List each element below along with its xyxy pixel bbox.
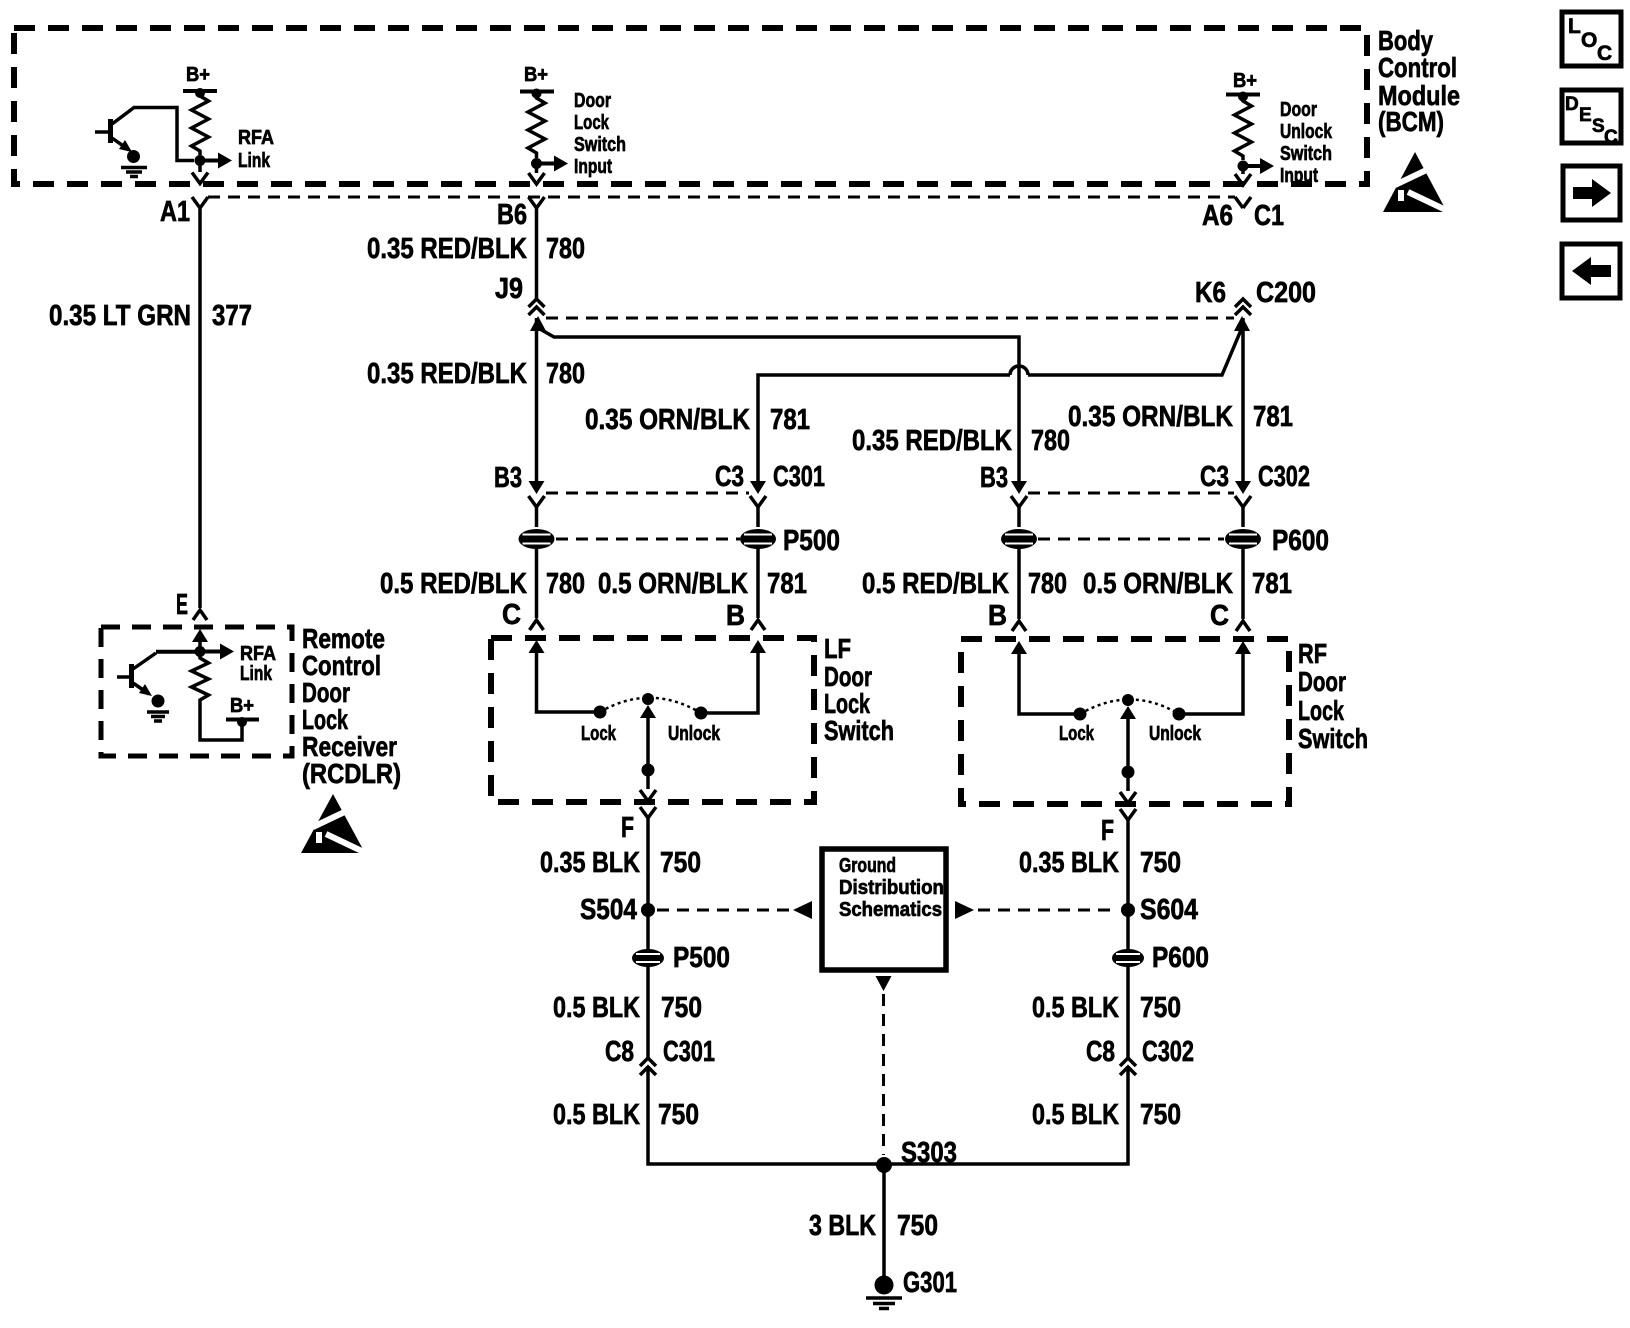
button back arrow: [1562, 244, 1620, 298]
svg-text:Door: Door: [574, 90, 611, 112]
svg-text:LF: LF: [824, 633, 851, 664]
svg-text:781: 781: [767, 568, 807, 600]
svg-text:Door: Door: [1298, 666, 1346, 697]
svg-text:RF: RF: [1298, 638, 1327, 669]
RF switch: pole wire down: [1126, 715, 1130, 791]
wire RF pin F down to S604: [1126, 820, 1130, 950]
svg-text:S: S: [1592, 116, 1605, 137]
svg-text:750: 750: [1140, 847, 1181, 879]
svg-text:Link: Link: [238, 150, 271, 172]
svg-text:0.35 RED/BLK: 0.35 RED/BLK: [852, 425, 1012, 457]
wire K6 branch to LF door (ORN/BLK) with hop over RED/BLK wire: [758, 330, 1241, 485]
wire end chevron at RF pin B: [1012, 621, 1026, 631]
Door Unlock Switch Input arrow: [1243, 99, 1333, 187]
wire B6 to J9 (0.35 RED/BLK 780): [535, 208, 539, 299]
svg-text:C1: C1: [1254, 200, 1284, 232]
pin A1 funnel: [192, 197, 208, 208]
wire grommet to RF switch pin C (0.5 ORN/BLK 781): [1241, 548, 1245, 619]
LF switch: pole arrow up: [640, 705, 656, 718]
grommet P500 (ORN/BLK wire): [740, 529, 776, 549]
B+ supply (middle, BCM): [520, 64, 554, 99]
svg-text:0.5 RED/BLK: 0.5 RED/BLK: [862, 568, 1009, 600]
svg-text:C302: C302: [1258, 461, 1310, 493]
svg-text:P500: P500: [673, 942, 730, 974]
Ground Distribution Schematics box: [822, 849, 946, 970]
RF switch: wire end chevron at pin F: [1120, 792, 1136, 803]
RF switch: common node on arc: [1122, 694, 1134, 706]
svg-text:F: F: [621, 812, 634, 844]
svg-text:C200: C200: [1256, 277, 1316, 309]
wire from R4 junction to pin A6: [1241, 166, 1245, 174]
svg-text:Lock: Lock: [1298, 695, 1344, 726]
splice S604: [1121, 903, 1135, 917]
button forward arrow: [1563, 166, 1620, 220]
svg-text:B+: B+: [230, 695, 254, 717]
Remote Control Door Lock Receiver dashed box: [101, 627, 292, 756]
svg-text:A1: A1: [160, 196, 190, 228]
svg-text:781: 781: [1252, 568, 1292, 600]
svg-text:(BCM): (BCM): [1378, 106, 1444, 137]
splice S504: [641, 903, 655, 917]
svg-text:780: 780: [546, 568, 585, 600]
RF switch: entry arrow pin C: [1235, 641, 1251, 654]
svg-text:(RCDLR): (RCDLR): [302, 758, 401, 789]
svg-text:Lock: Lock: [1059, 723, 1095, 745]
open chevron arrow exiting BCM at A6: [1235, 174, 1251, 185]
wire from R1 junction to pin A1: [198, 161, 202, 173]
svg-text:C: C: [1210, 600, 1229, 632]
wire grommet to RF switch pin B (0.5 RED/BLK 780): [1017, 548, 1021, 619]
svg-text:Switch: Switch: [824, 715, 894, 746]
svg-text:B3: B3: [494, 462, 522, 494]
svg-text:P500: P500: [783, 525, 840, 557]
svg-text:L: L: [1568, 15, 1581, 38]
svg-text:S604: S604: [1140, 894, 1198, 926]
svg-text:750: 750: [658, 1099, 699, 1131]
LF switch: pole junction node: [642, 764, 655, 777]
svg-text:750: 750: [661, 992, 702, 1024]
svg-text:K6: K6: [1195, 277, 1226, 309]
connector C301 row: pin B3 arrow: [529, 481, 545, 494]
svg-text:Switch: Switch: [1298, 723, 1368, 754]
wire grommet to LF switch pin C (0.5 RED/BLK 780): [535, 548, 539, 618]
pin funnel below C3 (C301): [750, 496, 766, 507]
pin funnel below B3: [529, 496, 545, 507]
svg-text:Control: Control: [1378, 52, 1457, 83]
LF switch: pole wire down: [646, 714, 650, 789]
wire below K6 continues (0.35 ORN/BLK 781): [1241, 318, 1245, 483]
svg-text:RFA: RFA: [238, 127, 274, 149]
svg-text:750: 750: [897, 1210, 938, 1242]
svg-text:750: 750: [1140, 992, 1181, 1024]
svg-text:C3: C3: [1200, 461, 1229, 493]
LF switch: common node on arc: [642, 693, 654, 705]
RF switch: pole arrow up: [1120, 706, 1136, 719]
svg-text:0.5 ORN/BLK: 0.5 ORN/BLK: [598, 568, 748, 600]
pin funnel below B3 (C302): [1011, 496, 1027, 507]
svg-text:0.35 RED/BLK: 0.35 RED/BLK: [367, 358, 527, 390]
svg-text:F: F: [1101, 815, 1114, 847]
RFA Link arrow (BCM): [200, 127, 274, 172]
wire C8 down to ground rail (LF, 0.5 BLK 750): [648, 1067, 884, 1164]
wire E into RCDLR junction: [198, 638, 202, 652]
grommet P500 (ground wire): [632, 949, 664, 967]
svg-text:Unlock: Unlock: [668, 723, 721, 745]
grommet dashed line P600: [1038, 538, 1224, 541]
grommet P600 (ORN/BLK wire): [1225, 529, 1261, 549]
svg-text:G301: G301: [903, 1267, 957, 1299]
connector C301 dashed line: [546, 492, 749, 495]
dashed reference line down to S303: [882, 994, 885, 1155]
svg-text:C: C: [1604, 127, 1618, 148]
transistor Q2 (RCDLR): [117, 652, 195, 696]
wire A1 to E (0.35 LT GRN 377): [198, 208, 202, 608]
svg-text:Schematics: Schematics: [839, 899, 942, 921]
pin A6/C1 funnel: [1235, 197, 1251, 208]
open chevron arrow exiting BCM at A1: [192, 173, 208, 184]
svg-text:P600: P600: [1272, 525, 1329, 557]
svg-text:Unlock: Unlock: [1149, 723, 1202, 745]
svg-text:C301: C301: [773, 461, 825, 493]
svg-text:S504: S504: [580, 894, 637, 926]
connector C200 dashed line: [546, 317, 1234, 320]
svg-text:0.35 ORN/BLK: 0.35 ORN/BLK: [585, 404, 750, 436]
B+ supply (RCDLR): [226, 695, 259, 727]
svg-text:C3: C3: [715, 461, 744, 493]
pin funnel below C3 (C302): [1235, 496, 1251, 507]
node: R4 bottom junction: [1238, 161, 1249, 172]
svg-text:750: 750: [660, 847, 701, 879]
RCDLR entry arrow at E: [192, 629, 208, 642]
wire below J9 continues (0.35 RED/BLK 780): [535, 318, 539, 483]
E pin chevron above RCDLR: [193, 610, 207, 620]
svg-text:0.5 RED/BLK: 0.5 RED/BLK: [380, 568, 527, 600]
direction arrow at K6 branch: [1234, 316, 1250, 331]
svg-text:780: 780: [546, 358, 585, 390]
LF switch: Lock contact node: [594, 706, 607, 719]
svg-text:D: D: [1565, 94, 1579, 115]
svg-text:Unlock: Unlock: [1280, 121, 1333, 143]
dashed reference line S504 to Ground Distribution box: [657, 909, 791, 912]
svg-text:Lock: Lock: [574, 112, 610, 134]
svg-text:E: E: [1579, 105, 1592, 126]
svg-text:A6: A6: [1202, 200, 1233, 232]
wire C8 down to ground rail (RF, 0.5 BLK 750): [884, 1067, 1128, 1164]
RF switch: wire pin B to Lock contact: [1019, 651, 1080, 714]
svg-text:Switch: Switch: [1280, 143, 1332, 165]
inline connector double chevron at J9: [529, 299, 545, 315]
pin C3 arrow (C301): [750, 481, 766, 494]
svg-text:0.35 BLK: 0.35 BLK: [540, 847, 640, 879]
svg-text:0.35 LT GRN: 0.35 LT GRN: [49, 300, 191, 332]
svg-text:E: E: [176, 589, 188, 621]
svg-text:Input: Input: [574, 156, 612, 178]
wire grommet to LF switch pin B (0.5 ORN/BLK 781): [756, 548, 760, 618]
resistor R3 (RCDLR): [192, 652, 209, 707]
svg-text:S303: S303: [901, 1137, 957, 1169]
svg-text:Ground: Ground: [839, 855, 896, 877]
svg-text:C: C: [1597, 42, 1612, 65]
pin F funnel (RF): [1120, 809, 1136, 820]
svg-text:B+: B+: [186, 64, 210, 86]
svg-text:Door: Door: [1280, 99, 1317, 121]
svg-text:C302: C302: [1142, 1036, 1194, 1068]
RF switch: pole junction node: [1122, 766, 1135, 779]
svg-text:B3: B3: [980, 462, 1008, 494]
svg-text:Link: Link: [240, 663, 273, 685]
Door Lock Switch Input arrow: [537, 90, 627, 178]
LF switch: wire pin B to Unlock contact: [701, 650, 758, 713]
B+ supply (left, BCM): [183, 64, 217, 98]
node: RCDLR junction: [195, 646, 206, 657]
B+ supply (right, BCM): [1226, 70, 1260, 102]
svg-text:0.5 BLK: 0.5 BLK: [553, 992, 640, 1024]
resistor R1 (BCM RFA link pull-up): [192, 93, 209, 155]
wire C3 to grommet (C302): [1241, 507, 1245, 527]
direction arrow at J9 branch: [530, 316, 546, 331]
inline connector double chevron C8 (C301): [640, 1058, 656, 1075]
LF switch: entry arrow pin B: [750, 640, 766, 653]
resistor R2 (door lock switch input pull-up): [528, 94, 545, 159]
reference arrow (down, to S303): [876, 976, 892, 991]
RF Door Lock Switch dashed box: [961, 639, 1289, 804]
svg-text:B+: B+: [524, 64, 548, 86]
reference arrow (right, pointing to S604): [955, 901, 974, 919]
ground (Q2 emitter): [147, 695, 169, 722]
open chevron arrow exiting BCM at B6: [529, 173, 545, 184]
resistor R4 (door unlock switch input pull-up): [1235, 97, 1252, 161]
svg-text:780: 780: [1028, 568, 1067, 600]
ESD symbol (BCM): [1383, 152, 1448, 212]
inline connector double chevron C8 (C302): [1120, 1058, 1136, 1075]
svg-text:0.5 BLK: 0.5 BLK: [1032, 1099, 1119, 1131]
svg-text:0.5 BLK: 0.5 BLK: [1032, 992, 1119, 1024]
svg-text:C8: C8: [1086, 1036, 1115, 1068]
ground (Q1 emitter): [121, 150, 147, 177]
wire J9 branch to RF door (RED/BLK) crossover: [540, 329, 1019, 485]
svg-text:0.5 ORN/BLK: 0.5 ORN/BLK: [1083, 568, 1233, 600]
RF switch: wire pin C to Unlock contact: [1179, 651, 1243, 714]
Body Control Module (BCM) dashed box: [14, 28, 1367, 184]
svg-text:C: C: [502, 599, 521, 631]
button LOC: [1562, 12, 1621, 66]
connector dashed line below BCM: [208, 196, 1235, 199]
svg-text:J9: J9: [495, 273, 523, 305]
LF switch: wire end chevron at pin F: [640, 790, 656, 801]
svg-text:780: 780: [546, 233, 585, 265]
svg-text:P600: P600: [1152, 942, 1209, 974]
svg-text:750: 750: [1140, 1099, 1181, 1131]
svg-text:O: O: [1581, 29, 1597, 52]
svg-text:3 BLK: 3 BLK: [809, 1210, 876, 1242]
LF switch: Unlock contact node: [695, 707, 708, 720]
svg-text:C301: C301: [663, 1036, 715, 1068]
svg-text:Distribution: Distribution: [839, 877, 944, 899]
pin F funnel (LF): [640, 807, 656, 818]
svg-text:C8: C8: [605, 1036, 634, 1068]
wire LF pin F down to S504: [646, 818, 650, 950]
svg-text:377: 377: [212, 300, 252, 332]
dashed reference line to S604: [978, 909, 1118, 912]
wire R3 bottom to B+: [200, 706, 242, 740]
reference arrow (left, pointing to S504): [793, 901, 812, 919]
svg-text:781: 781: [1253, 401, 1293, 433]
svg-text:RFA: RFA: [240, 643, 276, 665]
svg-text:0.5 BLK: 0.5 BLK: [553, 1099, 640, 1131]
inline connector double chevron at K6: [1235, 299, 1251, 315]
grommet P600 (RED/BLK wire): [1001, 529, 1037, 549]
svg-text:Lock: Lock: [581, 723, 617, 745]
RFA Link arrow (RCDLR): [200, 643, 276, 685]
svg-text:780: 780: [1031, 425, 1070, 457]
wire B3 to grommet (C302): [1017, 507, 1021, 527]
wire C3 to grommet: [756, 507, 760, 527]
LF Door Lock Switch dashed box: [491, 638, 814, 802]
svg-text:B: B: [988, 600, 1007, 632]
svg-text:0.35 ORN/BLK: 0.35 ORN/BLK: [1068, 401, 1233, 433]
svg-text:Input: Input: [1280, 165, 1318, 187]
svg-text:B+: B+: [1233, 70, 1257, 92]
wire B3 to grommet: [535, 507, 539, 527]
horizontal wire Q2 collector to junction: [156, 650, 200, 654]
ground G301: [866, 1276, 902, 1309]
RF switch: Lock contact node: [1074, 708, 1087, 721]
pin C3 arrow (C302): [1235, 481, 1251, 494]
button DESC: [1562, 90, 1621, 148]
wire P500 to C8 (0.5 BLK 750): [646, 966, 650, 1058]
svg-text:781: 781: [770, 404, 810, 436]
wire P600 to C8 (0.5 BLK 750): [1126, 966, 1130, 1058]
svg-text:0.35 BLK: 0.35 BLK: [1019, 847, 1119, 879]
wire S303 to G301 (3 BLK 750): [882, 1165, 886, 1280]
wire end chevron at LF pin B: [751, 620, 765, 630]
svg-text:B6: B6: [497, 199, 527, 231]
wire end chevron at LF pin C: [530, 620, 544, 630]
LF switch: movable contact arc (dashed): [600, 698, 701, 713]
connector C302 dashed line: [1028, 492, 1234, 495]
grommet P600 (ground wire): [1112, 949, 1144, 967]
ESD symbol (RCDLR): [301, 794, 366, 853]
RF switch: movable contact arc (dashed): [1080, 700, 1179, 715]
RF switch: entry arrow pin B: [1011, 641, 1027, 654]
grommet dashed line P500: [556, 538, 740, 541]
wire hop arc over x=1019: [1010, 366, 1028, 375]
LF switch: entry arrow pin C: [529, 640, 545, 653]
splice S303: [876, 1157, 892, 1173]
svg-text:0.35 RED/BLK: 0.35 RED/BLK: [367, 233, 527, 265]
pin B6 funnel: [529, 197, 545, 208]
node: R1 bottom junction: [195, 155, 206, 166]
node: R2 bottom junction: [531, 158, 542, 169]
svg-text:B: B: [726, 600, 745, 632]
LF switch: wire pin C to Lock contact: [537, 650, 601, 712]
wire from R2 junction to pin B6: [535, 164, 539, 174]
wire end chevron at RF pin C: [1236, 621, 1250, 631]
connector C302 row: pin B3 arrow: [1011, 481, 1027, 494]
grommet P500 (RED/BLK wire): [519, 529, 555, 549]
transistor Q1 (BCM, RFA link driver): [95, 108, 194, 161]
svg-text:Switch: Switch: [574, 134, 626, 156]
RF switch: Unlock contact node: [1173, 708, 1186, 721]
